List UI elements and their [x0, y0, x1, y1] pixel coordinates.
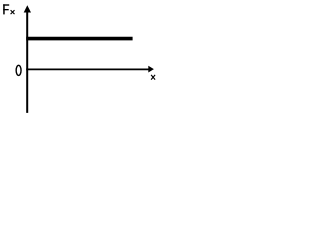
- label 0: [16, 65, 21, 75]
- label x axis: [151, 75, 155, 80]
- label subscript x: [11, 10, 15, 14]
- y-axis: [26, 10, 28, 113]
- x-axis arrowhead: [148, 66, 154, 73]
- y-axis arrowhead: [24, 5, 31, 12]
- x-axis: [26, 68, 149, 70]
- label F: [3, 4, 9, 14]
- step function line: [26, 37, 132, 41]
